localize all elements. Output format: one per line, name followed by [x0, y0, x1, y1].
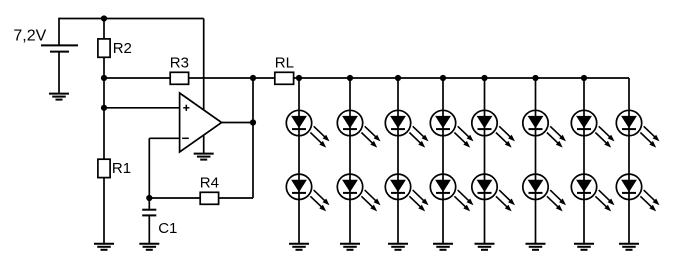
wire rail to LED D1a — [298, 78, 300, 110]
wire R3 to output node — [189, 77, 253, 79]
ground LED column 2 — [340, 244, 360, 250]
wire RL to LED rail — [294, 77, 629, 79]
LED D2b — [337, 174, 380, 211]
wire -input — [149, 138, 179, 198]
LED D6a — [523, 110, 566, 147]
wire op-amp gnd pin — [203, 135, 205, 154]
ground LED column 4 — [433, 244, 453, 250]
battery BT1 7,2V label — [13, 28, 46, 45]
wire LED D4a to D4b — [442, 136, 444, 174]
wire LED D2b to ground — [349, 200, 351, 244]
wire rail to LED D2a — [349, 78, 351, 110]
wire op-amp V+ pin — [203, 19, 205, 111]
wire rail to LED D7a — [583, 78, 585, 110]
wire +input — [104, 107, 180, 109]
wire node to R4 — [149, 197, 200, 199]
LED D1a — [286, 110, 329, 147]
LED D6b — [523, 174, 566, 211]
LED D8b — [616, 174, 659, 211]
LED D4a — [430, 110, 473, 147]
wire node to C1 — [148, 198, 150, 209]
resistor R3 — [170, 54, 189, 84]
wire C1 to ground — [148, 215, 150, 243]
wire LED D4b to ground — [442, 200, 444, 244]
LED D2a — [337, 110, 380, 147]
wire LED D7a to D7b — [583, 136, 585, 174]
node LED column 6 junction — [532, 75, 538, 81]
wire LED D8b to ground — [628, 200, 630, 244]
svg-text:C1: C1 — [158, 220, 177, 237]
wire LED D5a to D5b — [484, 136, 486, 174]
svg-text:R4: R4 — [200, 174, 219, 191]
wire LED D7b to ground — [583, 200, 585, 244]
ground LED column 5 — [475, 244, 495, 250]
wire rail to LED D6a — [535, 78, 537, 110]
ground C1 — [139, 244, 159, 250]
wire top rail — [59, 18, 204, 20]
wire battery to ground — [58, 52, 60, 94]
wire node A to R3 — [104, 77, 170, 79]
ground LED column 6 — [526, 244, 546, 250]
svg-text:R3: R3 — [170, 54, 189, 71]
wire node A to node B — [103, 78, 105, 108]
LED D1b — [286, 174, 329, 211]
wire LED D1b to ground — [298, 200, 300, 244]
wire rail to LED D8a — [628, 78, 630, 110]
wire rail to LED D3a — [397, 78, 399, 110]
svg-text:R1: R1 — [112, 160, 131, 177]
resistor R4 — [200, 174, 219, 204]
resistor R2 — [98, 39, 132, 57]
node output-feedback junction — [250, 119, 256, 125]
node LED column 2 junction — [347, 75, 353, 81]
LED D8a — [616, 110, 659, 147]
ground LED column 3 — [388, 244, 408, 250]
op-amp U1 — [180, 93, 222, 152]
wire LED D6b to ground — [535, 200, 537, 244]
node LED column 5 junction — [481, 75, 487, 81]
wire output node to RL — [253, 77, 275, 79]
LED D3a — [385, 110, 428, 147]
node LED column 3 junction — [395, 75, 401, 81]
LED D3b — [385, 174, 428, 211]
wire LED D2a to D2b — [349, 136, 351, 174]
ground op-amp — [194, 154, 214, 160]
LED D5a — [472, 110, 515, 147]
wire node B to R1 — [103, 108, 105, 159]
wire rail to R2 — [103, 19, 105, 40]
wire R4 to feedback — [219, 197, 253, 199]
ground LED column 8 — [619, 244, 639, 250]
capacitor C1 — [142, 210, 177, 237]
ground battery — [49, 94, 69, 100]
node LED column 1 junction — [296, 75, 302, 81]
LED D7b — [571, 174, 614, 211]
wire LED D3b to ground — [397, 200, 399, 244]
wire LED D6a to D6b — [535, 136, 537, 174]
svg-text:7,2V: 7,2V — [13, 28, 46, 45]
ground LED column 7 — [574, 244, 594, 250]
resistor RL — [275, 54, 294, 84]
wire LED D5b to ground — [484, 200, 486, 244]
svg-text:R2: R2 — [113, 40, 132, 57]
LED D4b — [430, 174, 473, 211]
ground R1 — [94, 244, 114, 250]
node C1-R4 junction — [146, 195, 152, 201]
wire LED D1a to D1b — [298, 136, 300, 174]
wire LED D3a to D3b — [397, 136, 399, 174]
wire LED D8a to D8b — [628, 136, 630, 174]
wire feedback vertical — [252, 78, 254, 198]
wire battery to rail — [58, 18, 60, 46]
node LED column 7 junction — [581, 75, 587, 81]
wire rail to LED D4a — [442, 78, 444, 110]
wire rail to LED D5a — [484, 78, 486, 110]
wire R1 to ground — [103, 178, 105, 244]
node A (R2/R1/R3 junction) — [101, 75, 107, 81]
wire op-amp output — [222, 122, 253, 124]
node B (+input junction) — [101, 105, 107, 111]
LED D7a — [571, 110, 614, 147]
battery BT1 — [41, 45, 78, 51]
node output-top junction — [250, 75, 256, 81]
LED D5b — [472, 174, 515, 211]
node LED column 4 junction — [440, 75, 446, 81]
resistor R1 — [98, 159, 131, 177]
node rail-R2 junction — [101, 15, 107, 21]
svg-text:RL: RL — [275, 54, 294, 71]
ground LED column 1 — [289, 244, 309, 250]
wire R2 to node A — [103, 57, 105, 78]
